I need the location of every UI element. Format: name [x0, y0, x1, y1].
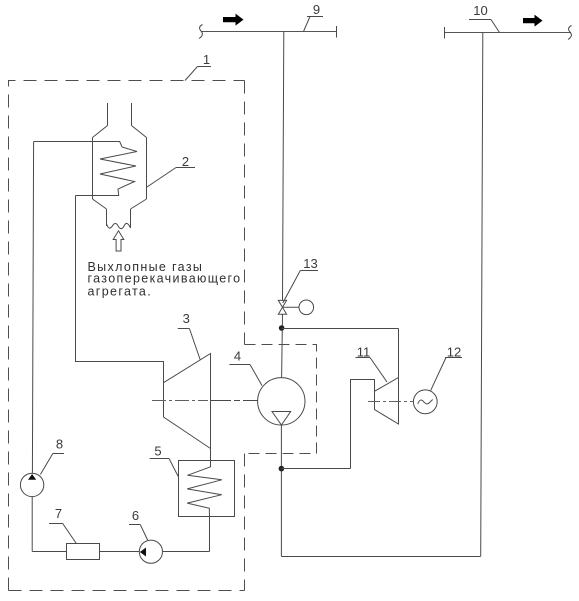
svg-text:газоперекачивающего: газоперекачивающего [88, 272, 242, 286]
svg-text:8: 8 [56, 437, 63, 452]
svg-text:10: 10 [473, 3, 487, 18]
svg-text:3: 3 [183, 311, 190, 326]
svg-text:9: 9 [313, 2, 320, 17]
svg-text:13: 13 [303, 256, 317, 271]
svg-text:1: 1 [203, 52, 210, 67]
svg-text:агрегата.: агрегата. [88, 285, 153, 299]
svg-text:6: 6 [132, 508, 139, 523]
svg-text:4: 4 [234, 349, 241, 364]
svg-text:5: 5 [154, 444, 161, 459]
svg-text:7: 7 [55, 506, 62, 521]
svg-text:2: 2 [182, 154, 189, 169]
